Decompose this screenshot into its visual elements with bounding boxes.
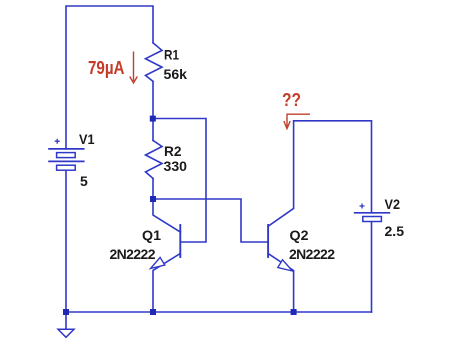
svg-text:2N2222: 2N2222 [289, 246, 335, 262]
battery V2 [354, 204, 390, 222]
wire R2 to node B [152, 178, 154, 199]
svg-text:2.5: 2.5 [385, 223, 405, 239]
annotation elbow arrow at Q2 collector [284, 114, 310, 128]
wire node A to Q1 base [153, 119, 206, 243]
wire top loop V1 to R1 [66, 6, 153, 149]
annotation current arrow at R1 [130, 52, 138, 84]
Q1 emitter arrowhead [151, 257, 165, 268]
svg-text:V2: V2 [385, 196, 401, 212]
svg-text:330: 330 [164, 158, 188, 174]
wire node B to Q2 base [153, 199, 268, 242]
ground [58, 329, 74, 337]
svg-text:5: 5 [80, 173, 88, 189]
wire V2 bottom lead [371, 222, 373, 313]
junction Q1 emitter [150, 309, 156, 315]
wire ground stub [65, 312, 67, 329]
battery V1 [48, 139, 84, 171]
wire bottom rail [66, 311, 372, 313]
svg-text:R1: R1 [164, 47, 179, 63]
node A junction [150, 116, 156, 122]
svg-text:56k: 56k [164, 66, 188, 82]
wire V1 bottom lead [65, 170, 67, 312]
svg-text:??: ?? [282, 90, 301, 110]
transistor Q1 [153, 199, 180, 232]
resistor R1 [146, 43, 163, 82]
svg-text:Q1: Q1 [142, 227, 161, 243]
node B junction [150, 196, 156, 202]
svg-text:R2: R2 [164, 143, 182, 159]
svg-text:Q2: Q2 [290, 227, 309, 243]
junction Q2 emitter [291, 309, 297, 315]
svg-text:79µA: 79µA [88, 58, 125, 78]
junction bottom left [63, 309, 69, 315]
wire R1 to node A to R2 [152, 81, 154, 140]
svg-text:2N2222: 2N2222 [110, 246, 156, 262]
svg-text:V1: V1 [79, 131, 95, 147]
transistor Q2 [268, 121, 371, 227]
resistor R2 [146, 140, 163, 178]
Q2 emitter arrowhead [278, 260, 293, 271]
